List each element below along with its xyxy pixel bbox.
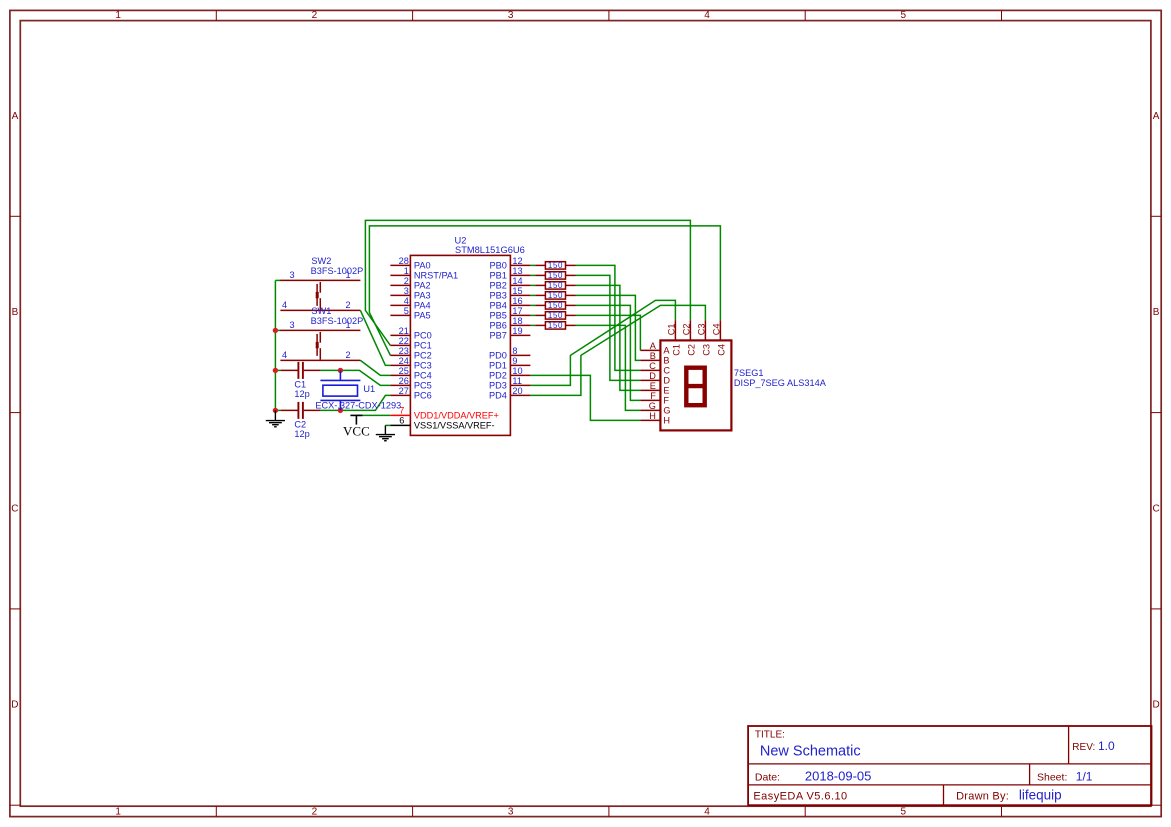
7SEG pin C	[640, 369, 660, 371]
svg-text:6: 6	[399, 416, 404, 426]
svg-text:Sheet:: Sheet:	[1037, 771, 1067, 783]
svg-text:22: 22	[399, 336, 409, 346]
svg-text:21: 21	[399, 326, 409, 336]
svg-text:PC5: PC5	[414, 381, 432, 391]
7SEG pin D	[640, 379, 660, 381]
svg-text:12p: 12p	[294, 389, 309, 399]
svg-text:2: 2	[404, 276, 409, 286]
svg-text:4: 4	[282, 350, 287, 360]
wire SW1 pin3 to GND vertical	[275, 329, 281, 331]
U2 pin 25 PC4	[390, 374, 410, 376]
wire GND net left vertical	[274, 280, 276, 410]
svg-text:C: C	[1152, 503, 1159, 514]
wire U2 PB4 to R5	[530, 304, 535, 306]
svg-text:PD3: PD3	[489, 381, 507, 391]
svg-text:U1: U1	[363, 384, 375, 394]
svg-text:D: D	[11, 700, 18, 711]
wire U2 PB3 to R4	[530, 294, 535, 296]
wire U2 pin6 to GND	[385, 424, 390, 426]
svg-text:PA0: PA0	[414, 261, 431, 271]
svg-text:C2: C2	[294, 419, 306, 429]
svg-text:PA5: PA5	[414, 311, 431, 321]
svg-text:150: 150	[548, 301, 563, 310]
svg-text:19: 19	[512, 326, 522, 336]
svg-text:STM8L151G6U6: STM8L151G6U6	[455, 245, 525, 255]
svg-text:PC3: PC3	[414, 361, 432, 371]
svg-text:PD2: PD2	[489, 371, 507, 381]
ground (U2 pin 6)	[376, 425, 395, 440]
junction at (275.4,410.4)	[273, 408, 278, 413]
svg-text:B: B	[650, 351, 656, 361]
svg-text:Date:: Date:	[755, 771, 780, 783]
svg-text:3: 3	[404, 286, 409, 296]
U2 pin 14 PB2	[510, 284, 530, 286]
svg-text:10: 10	[512, 366, 522, 376]
svg-text:1: 1	[404, 266, 409, 276]
svg-text:3: 3	[508, 806, 514, 817]
wire C1/XTAL node to U2 PC5	[320, 370, 390, 385]
svg-text:8: 8	[512, 346, 517, 356]
svg-text:B3FS-1002P: B3FS-1002P	[311, 266, 364, 276]
wire U2 PC1 to 7SEG C2	[365, 220, 690, 345]
U2 pin 12 PB0	[510, 264, 530, 266]
svg-text:PB0: PB0	[490, 261, 507, 271]
svg-text:17: 17	[512, 306, 522, 316]
wire C2/XTAL node to U2 PC6	[320, 395, 390, 410]
title block	[748, 726, 1151, 805]
svg-text:H: H	[663, 416, 670, 426]
svg-text:A: A	[12, 111, 19, 122]
resistor R4 150	[535, 292, 575, 299]
junction at (275.4,330.4)	[273, 328, 278, 333]
7SEG pin E	[640, 389, 660, 391]
svg-text:13: 13	[512, 266, 522, 276]
svg-text:C: C	[649, 361, 656, 371]
U2 pin 19 PB7	[510, 334, 530, 336]
U2 pin 18 PB6	[510, 324, 530, 326]
svg-text:PC4: PC4	[414, 371, 432, 381]
svg-text:B: B	[663, 356, 669, 366]
U2 pin 23 PC2	[390, 354, 410, 356]
svg-text:PC2: PC2	[414, 351, 432, 361]
U2 pin 9 PD1	[510, 364, 530, 366]
svg-text:REV:: REV:	[1072, 742, 1095, 753]
svg-text:VSS1/VSSA/VREF-: VSS1/VSSA/VREF-	[414, 421, 495, 431]
7-segment display 7SEG1 DISP_7SEG ALS314A	[660, 340, 731, 430]
wire SW1 pin2 to U2 PC4	[360, 360, 390, 375]
svg-text:1: 1	[115, 806, 121, 817]
svg-text:150: 150	[548, 271, 563, 280]
svg-text:PB6: PB6	[490, 321, 507, 331]
svg-text:2: 2	[312, 806, 318, 817]
svg-text:PB4: PB4	[490, 301, 507, 311]
svg-text:G: G	[663, 406, 670, 416]
resistor R7 150	[535, 322, 575, 329]
wire R5 to 7SEG F	[576, 305, 641, 400]
wire R6 to 7SEG A	[576, 315, 641, 350]
wire U2 PD2 to 7SEG H	[530, 375, 640, 420]
svg-text:2: 2	[345, 300, 350, 310]
7SEG pin C4	[719, 320, 721, 340]
resistor R3 150	[535, 282, 575, 289]
svg-text:E: E	[663, 386, 669, 396]
op IC U2 STM8L151G6U6	[410, 255, 510, 435]
svg-text:PA3: PA3	[414, 291, 431, 301]
svg-text:C3: C3	[701, 344, 711, 356]
svg-text:C1: C1	[671, 344, 681, 356]
svg-text:1: 1	[345, 270, 350, 280]
svg-text:3: 3	[508, 10, 514, 21]
svg-text:150: 150	[548, 281, 563, 290]
svg-text:5: 5	[901, 806, 907, 817]
pushbutton SW2 (B3FS-1002P)	[280, 280, 360, 310]
U2 pin 17 PB5	[510, 314, 530, 316]
wire VCC to U2 pin7	[356, 414, 390, 416]
svg-text:PB1: PB1	[490, 271, 507, 281]
svg-text:D: D	[649, 371, 656, 381]
wire R1 to 7SEG C	[576, 265, 641, 370]
svg-text:C2: C2	[686, 344, 696, 356]
U2 pin 2 PA2	[390, 284, 410, 286]
wire U2 PB0 to R1	[530, 264, 535, 266]
wire U2 PB2 to R3	[530, 284, 535, 286]
svg-text:25: 25	[399, 366, 409, 376]
wire R2 to 7SEG D	[576, 275, 641, 380]
U2 pin 4 PA4	[390, 304, 410, 306]
svg-text:23: 23	[399, 346, 409, 356]
svg-text:A: A	[1153, 111, 1160, 122]
svg-text:SW1: SW1	[311, 306, 331, 316]
svg-text:C2: C2	[681, 323, 691, 335]
U2 pin 11 PD3	[510, 384, 530, 386]
svg-text:PD1: PD1	[489, 361, 507, 371]
svg-text:PD0: PD0	[489, 351, 507, 361]
pushbutton SW1 (B3FS-1002P)	[280, 330, 360, 360]
wire U2 PD3 to 7SEG C1	[530, 300, 675, 385]
resistor R6 150	[535, 312, 575, 319]
svg-text:New Schematic: New Schematic	[760, 743, 861, 759]
svg-text:F: F	[663, 396, 669, 406]
7SEG pin F	[640, 399, 660, 401]
svg-text:PC0: PC0	[414, 331, 432, 341]
svg-text:PA4: PA4	[414, 301, 431, 311]
junction at (340.4,370.4)	[338, 368, 343, 373]
wire R7 to 7SEG G	[576, 325, 641, 410]
svg-text:150: 150	[548, 261, 563, 270]
resistor R2 150	[535, 272, 575, 279]
svg-text:PB2: PB2	[490, 281, 507, 291]
svg-text:7SEG1: 7SEG1	[734, 368, 764, 378]
svg-text:PB7: PB7	[490, 331, 507, 341]
wire C2 left to GND vertical	[275, 409, 281, 411]
svg-text:D: D	[1152, 700, 1159, 711]
wire SW2 pin2 to U2 PC3	[360, 310, 390, 365]
svg-text:C3: C3	[696, 323, 706, 335]
svg-text:C1: C1	[666, 323, 676, 335]
svg-text:2: 2	[345, 350, 350, 360]
svg-text:lifequip: lifequip	[1019, 787, 1062, 802]
svg-text:5: 5	[901, 10, 907, 21]
U2 pin 16 PB4	[510, 304, 530, 306]
U2 pin 28 PA0	[390, 264, 410, 266]
svg-text:12: 12	[512, 256, 522, 266]
U2 pin 21 PC0	[390, 334, 410, 336]
svg-text:150: 150	[548, 291, 563, 300]
wire U2 PB1 to R2	[530, 274, 535, 276]
svg-text:C1: C1	[294, 379, 306, 389]
wire C1 left to GND vertical	[275, 369, 281, 371]
svg-text:2: 2	[312, 10, 318, 21]
svg-text:18: 18	[512, 316, 522, 326]
svg-text:4: 4	[704, 806, 710, 817]
wire U2 PB6 to R7	[530, 324, 535, 326]
svg-text:ECX-.327-CDX-1293: ECX-.327-CDX-1293	[315, 401, 401, 411]
svg-text:C: C	[11, 503, 18, 514]
junction at (340.4,410.4)	[338, 408, 343, 413]
U2 pin 6 VSS1/VSSA/VREF-	[390, 424, 410, 426]
svg-text:C: C	[663, 366, 670, 376]
svg-text:TITLE:: TITLE:	[755, 730, 785, 741]
7SEG pin G	[640, 409, 660, 411]
U2 pin 10 PD2	[510, 374, 530, 376]
svg-text:G: G	[649, 401, 656, 411]
7SEG pin H	[640, 419, 660, 421]
svg-text:PB3: PB3	[490, 291, 507, 301]
svg-text:27: 27	[399, 386, 409, 396]
svg-text:12p: 12p	[294, 429, 309, 439]
U2 pin 26 PC5	[390, 384, 410, 386]
U2 pin 3 PA3	[390, 294, 410, 296]
resistor R1 150	[535, 262, 575, 269]
U2 pin 8 PD0	[510, 354, 530, 356]
7SEG pin A	[640, 349, 660, 351]
capacitor C2 12p	[281, 409, 320, 411]
svg-text:H: H	[649, 411, 656, 421]
svg-text:16: 16	[512, 296, 522, 306]
U2 pin 22 PC1	[390, 344, 410, 346]
U2 pin 20 PD4	[510, 394, 530, 396]
svg-text:9: 9	[512, 356, 517, 366]
svg-text:DISP_7SEG ALS314A: DISP_7SEG ALS314A	[734, 378, 827, 388]
svg-text:11: 11	[512, 376, 522, 386]
svg-text:28: 28	[399, 256, 409, 266]
svg-text:B: B	[1153, 307, 1160, 318]
U2 pin 1 NRST/PA1	[390, 274, 410, 276]
U2 pin 5 PA5	[390, 314, 410, 316]
svg-text:F: F	[650, 391, 656, 401]
svg-text:3: 3	[289, 320, 294, 330]
resistor R5 150	[535, 302, 575, 309]
svg-text:PC1: PC1	[414, 341, 432, 351]
svg-text:E: E	[650, 381, 656, 391]
wire U2 PB5 to R6	[530, 314, 535, 316]
ground (left rail)	[266, 410, 285, 426]
svg-text:20: 20	[512, 386, 522, 396]
U2 pin 13 PB1	[510, 274, 530, 276]
wire U2 PD4 to 7SEG C3	[530, 305, 705, 395]
svg-text:D: D	[663, 376, 670, 386]
svg-text:14: 14	[512, 276, 522, 286]
U2 pin 24 PC3	[390, 364, 410, 366]
svg-text:4: 4	[282, 300, 287, 310]
svg-text:2018-09-05: 2018-09-05	[805, 768, 872, 783]
junction at (275.4,370.4)	[273, 368, 278, 373]
svg-text:A: A	[650, 341, 657, 351]
svg-text:VDD1/VDDA/VREF+: VDD1/VDDA/VREF+	[414, 411, 499, 421]
svg-text:1/1: 1/1	[1076, 769, 1093, 783]
svg-text:C4: C4	[716, 344, 726, 356]
crystal U1 ECX-.327-CDX-1293	[320, 370, 360, 410]
U2 pin 15 PB3	[510, 294, 530, 296]
7SEG pin C1	[674, 320, 676, 340]
svg-text:150: 150	[548, 321, 563, 330]
VCC power symbol	[350, 415, 362, 424]
svg-text:NRST/PA1: NRST/PA1	[414, 271, 458, 281]
svg-text:EasyEDA V5.6.10: EasyEDA V5.6.10	[753, 790, 847, 802]
svg-text:A: A	[663, 346, 670, 356]
svg-text:150: 150	[548, 311, 563, 320]
svg-text:1: 1	[115, 10, 121, 21]
svg-text:7: 7	[399, 406, 404, 416]
svg-text:B: B	[12, 307, 19, 318]
svg-text:C4: C4	[711, 323, 721, 335]
7SEG pin C3	[704, 320, 706, 340]
svg-text:PC6: PC6	[414, 391, 432, 401]
7SEG pin C2	[689, 320, 691, 340]
U2 pin 7 VDD1/VDDA/VREF+	[390, 414, 410, 416]
svg-text:4: 4	[404, 296, 409, 306]
svg-text:B3FS-1002P: B3FS-1002P	[311, 316, 364, 326]
svg-text:U2: U2	[455, 235, 467, 245]
svg-text:PD4: PD4	[489, 391, 507, 401]
wire R4 to 7SEG B	[576, 295, 641, 360]
wire SW2 pin3 to GND vertical	[275, 279, 281, 281]
wire R3 to 7SEG E	[576, 285, 641, 390]
svg-text:26: 26	[399, 376, 409, 386]
U2 pin 27 PC6	[390, 394, 410, 396]
svg-text:SW2: SW2	[311, 256, 331, 266]
7SEG pin B	[640, 359, 660, 361]
7SEG digit glyph	[686, 368, 704, 406]
svg-text:5: 5	[404, 306, 409, 316]
svg-text:3: 3	[289, 270, 294, 280]
svg-text:24: 24	[399, 356, 409, 366]
svg-text:4: 4	[704, 10, 710, 21]
svg-text:1.0: 1.0	[1098, 739, 1115, 753]
svg-text:1: 1	[345, 320, 350, 330]
svg-text:PA2: PA2	[414, 281, 431, 291]
svg-text:VCC: VCC	[343, 424, 370, 439]
svg-text:Drawn By:: Drawn By:	[956, 790, 1009, 802]
capacitor C1 12p	[281, 369, 320, 371]
svg-text:PB5: PB5	[490, 311, 507, 321]
svg-text:15: 15	[512, 286, 522, 296]
wire U2 PC2 to 7SEG C4	[369, 226, 720, 356]
